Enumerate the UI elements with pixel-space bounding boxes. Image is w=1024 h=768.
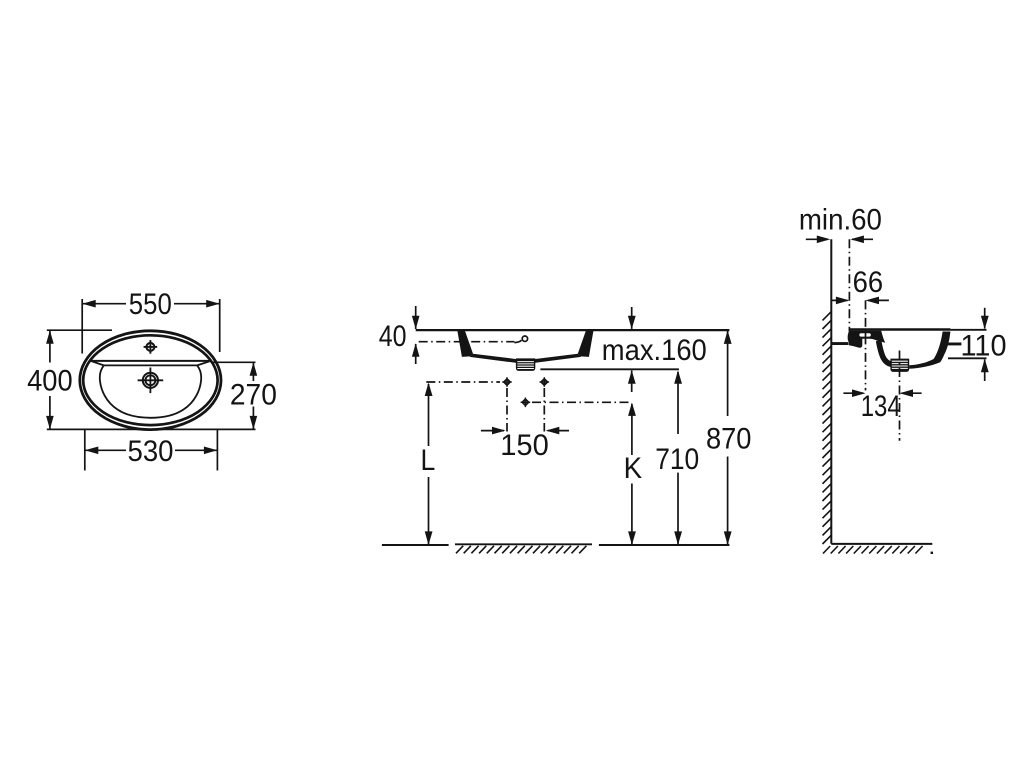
basin front: right flare <box>578 329 594 357</box>
svg-text:150: 150 <box>500 429 549 462</box>
drain symbol <box>138 368 164 394</box>
side basin <box>831 330 961 372</box>
top rim line <box>849 328 951 330</box>
svg-text:550: 550 <box>129 288 172 321</box>
rear deck + hook foot <box>848 331 886 348</box>
drain block side <box>890 359 909 372</box>
svg-text:K: K <box>624 452 643 485</box>
bowl left wall band <box>879 341 895 365</box>
floor dot artifact <box>931 552 933 554</box>
dim min60 <box>799 204 882 244</box>
outer oval <box>80 331 221 430</box>
svg-text:40: 40 <box>379 320 407 353</box>
basin bowl outline <box>100 365 201 417</box>
dim 870 <box>706 330 752 545</box>
floor line mid <box>382 544 449 546</box>
svg-text:min.60: min.60 <box>799 204 882 237</box>
basin front: bowl band right <box>534 354 581 363</box>
tap hole symbol <box>144 340 158 354</box>
tap centerline 2 <box>865 300 867 390</box>
dim 150 <box>481 427 569 462</box>
wall hatch <box>823 312 832 544</box>
svg-text:270: 270 <box>230 378 277 411</box>
marker hole right <box>540 377 550 387</box>
wall line <box>830 239 832 544</box>
hole markers + dash-dot construction lines <box>426 377 629 431</box>
dim 710 <box>655 370 699 545</box>
mounting tab right <box>946 343 961 346</box>
floor hatch mid <box>455 544 592 553</box>
tap centerline 1 <box>848 239 850 331</box>
svg-text:134: 134 <box>861 390 901 423</box>
svg-text:710: 710 <box>655 443 699 476</box>
svg-text:66: 66 <box>853 266 884 299</box>
tap centerline through slot <box>865 333 867 337</box>
corner diagonal right <box>197 361 211 366</box>
dim 66 <box>831 266 889 304</box>
dim 530 <box>85 429 218 471</box>
svg-text:max.160: max.160 <box>602 334 707 367</box>
floor line right <box>831 543 932 545</box>
dim 134 <box>843 389 921 423</box>
waterline dash-dot <box>419 341 515 343</box>
drain centerline <box>899 351 901 441</box>
svg-text:L: L <box>421 444 436 477</box>
tap hole slot (white) <box>859 333 870 336</box>
basin front: drain block <box>516 358 535 371</box>
deck line <box>91 360 211 362</box>
dim 550 <box>82 288 220 354</box>
corner diagonal left <box>91 361 104 366</box>
marker hole left <box>502 377 512 387</box>
dim L <box>421 383 436 545</box>
bowl right band + flare <box>909 332 950 369</box>
dim 40 <box>379 306 420 364</box>
dim max160 <box>540 307 706 392</box>
svg-text:530: 530 <box>128 435 174 468</box>
dim 400 <box>27 330 112 429</box>
svg-text:110: 110 <box>961 330 1007 363</box>
marker drain center <box>521 398 531 408</box>
dim 270 <box>47 362 277 429</box>
basin front: bowl band left <box>470 354 517 363</box>
basin top edge <box>104 364 197 366</box>
dim K <box>624 402 643 545</box>
inner rim oval <box>83 335 217 425</box>
overflow hook <box>515 340 522 342</box>
dim 110 <box>948 308 1007 381</box>
basin front: left flare <box>457 329 473 357</box>
mounting tab left <box>831 342 848 345</box>
svg-text:870: 870 <box>706 423 752 456</box>
counter line <box>416 329 730 331</box>
floor hatch right <box>823 546 923 554</box>
svg-text:400: 400 <box>27 364 73 397</box>
